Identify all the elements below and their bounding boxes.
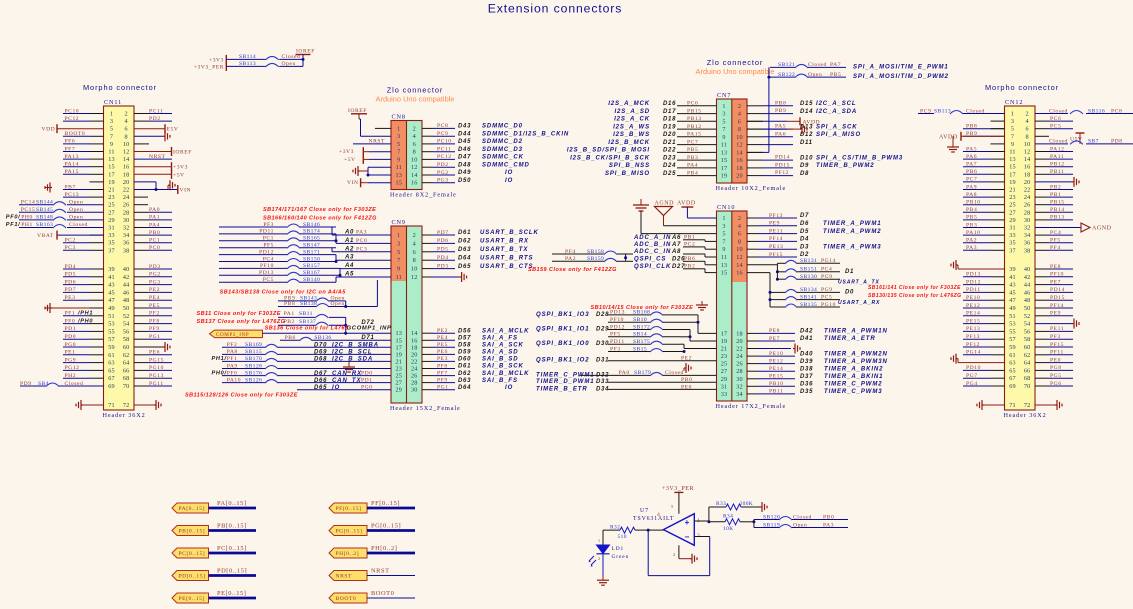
svg-text:+3V3_PER: +3V3_PER — [662, 486, 694, 492]
svg-text:15: 15 — [396, 337, 403, 344]
svg-text:PC12: PC12 — [437, 154, 452, 160]
svg-text:PF12: PF12 — [775, 170, 789, 176]
svg-text:PF2: PF2 — [227, 342, 238, 348]
svg-text:D16: D16 — [663, 101, 676, 107]
svg-text:+3V3: +3V3 — [339, 149, 354, 155]
svg-text:QSPI_BK1_IO2: QSPI_BK1_IO2 — [536, 358, 590, 364]
svg-text:39: 39 — [1009, 266, 1016, 273]
svg-text:2: 2 — [738, 215, 741, 222]
svg-text:64: 64 — [123, 360, 130, 367]
svg-text:5: 5 — [397, 249, 400, 256]
svg-text:PA8: PA8 — [966, 192, 977, 198]
svg-text:2: 2 — [413, 232, 416, 239]
svg-text:PC5: PC5 — [263, 277, 274, 283]
svg-text:3: 3 — [110, 118, 113, 125]
svg-text:Arduino Uno compatible: Arduino Uno compatible — [376, 95, 455, 104]
svg-text:PC4: PC4 — [821, 267, 832, 273]
svg-text:PB12: PB12 — [687, 124, 702, 130]
svg-text:PF10: PF10 — [1050, 272, 1064, 278]
svg-text:PE[0..15]: PE[0..15] — [217, 590, 246, 597]
svg-text:19: 19 — [108, 179, 115, 186]
svg-text:Zlo connector: Zlo connector — [707, 58, 763, 67]
svg-text:ADC_C_IN: ADC_C_IN — [633, 249, 671, 255]
svg-text:66: 66 — [123, 367, 130, 374]
svg-text:PB12: PB12 — [1050, 162, 1065, 168]
svg-text:Closed: Closed — [69, 222, 88, 228]
svg-text:PD11: PD11 — [966, 287, 981, 293]
svg-text:USART_A_RX: USART_A_RX — [838, 300, 880, 306]
svg-text:46: 46 — [1024, 289, 1031, 296]
svg-text:Open: Open — [69, 207, 83, 213]
svg-text:PF[0..15]: PF[0..15] — [336, 506, 362, 512]
svg-text:19: 19 — [721, 338, 728, 345]
svg-text:37: 37 — [1009, 247, 1016, 254]
svg-text:PB8: PB8 — [775, 100, 786, 106]
svg-text:70: 70 — [1024, 383, 1031, 390]
svg-text:14: 14 — [123, 156, 130, 163]
svg-text:14: 14 — [736, 149, 743, 156]
svg-text:PE2: PE2 — [437, 328, 448, 334]
svg-text:SDMMC_CK: SDMMC_CK — [482, 155, 524, 161]
svg-text:17: 17 — [108, 171, 115, 178]
svg-text:D33: D33 — [596, 379, 609, 385]
svg-text:D30: D30 — [596, 341, 609, 347]
svg-text:PC4: PC4 — [263, 256, 274, 262]
svg-text:72: 72 — [1024, 402, 1031, 409]
svg-text:17: 17 — [1009, 171, 1016, 178]
svg-text:29: 29 — [396, 387, 403, 394]
svg-text:2: 2 — [125, 111, 128, 118]
svg-text:I2C_A_SDA: I2C_A_SDA — [816, 109, 857, 115]
svg-text:PG5: PG5 — [1050, 373, 1062, 379]
svg-text:PE8: PE8 — [1050, 264, 1061, 270]
svg-text:PG9: PG9 — [821, 274, 833, 280]
svg-text:Header 36X2: Header 36X2 — [103, 412, 146, 419]
svg-text:SB115: SB115 — [245, 349, 262, 355]
svg-text:55: 55 — [108, 328, 115, 335]
svg-text:10: 10 — [736, 246, 743, 253]
svg-text:PE11: PE11 — [769, 228, 783, 234]
svg-text:38: 38 — [123, 247, 130, 254]
svg-text:CN9: CN9 — [392, 219, 406, 226]
svg-text:D11: D11 — [800, 140, 813, 146]
svg-text:D15: D15 — [800, 101, 813, 107]
svg-text:SB166/160/140 Close only for F: SB166/160/140 Close only for F412ZG — [263, 216, 377, 222]
svg-text:PD13: PD13 — [966, 272, 981, 278]
svg-text:PC3: PC3 — [65, 245, 76, 251]
svg-text:54: 54 — [123, 321, 130, 328]
svg-text:SB144: SB144 — [36, 199, 53, 205]
svg-text:9: 9 — [397, 266, 400, 273]
svg-text:PE6: PE6 — [437, 349, 448, 355]
svg-text:D21: D21 — [663, 140, 676, 146]
svg-text:71: 71 — [1009, 402, 1016, 409]
svg-text:9: 9 — [110, 141, 113, 148]
svg-text:PH1/: PH1/ — [212, 356, 228, 362]
svg-text:57: 57 — [1009, 336, 1016, 343]
svg-text:PF8: PF8 — [437, 363, 448, 369]
svg-text:PD[0..15]: PD[0..15] — [217, 568, 247, 575]
svg-text:28: 28 — [123, 209, 130, 216]
svg-text:SB136: SB136 — [314, 335, 331, 341]
svg-text:TIMER_A_BKIN2: TIMER_A_BKIN2 — [824, 366, 883, 372]
svg-text:PB6: PB6 — [966, 169, 977, 175]
svg-text:50: 50 — [123, 305, 130, 312]
svg-text:SB130: SB130 — [800, 274, 817, 280]
svg-text:PC3: PC3 — [356, 246, 367, 252]
svg-text:A0: A0 — [344, 230, 354, 236]
svg-text:SPI_A_MISO: SPI_A_MISO — [816, 132, 861, 138]
svg-text:Arduino Uno compatible: Arduino Uno compatible — [696, 67, 775, 76]
svg-text:27: 27 — [1009, 209, 1016, 216]
svg-text:IO: IO — [505, 170, 513, 176]
svg-text:PG6: PG6 — [1050, 381, 1062, 387]
svg-text:PE13: PE13 — [769, 244, 783, 250]
svg-text:PE7: PE7 — [1050, 279, 1061, 285]
svg-text:PE3: PE3 — [437, 356, 448, 362]
svg-text:PA5: PA5 — [966, 146, 977, 152]
svg-text:PF7: PF7 — [437, 370, 448, 376]
svg-text:40: 40 — [123, 266, 130, 273]
svg-text:SB115/128/126 Close only for F: SB115/128/126 Close only for F303ZE — [185, 393, 298, 399]
svg-text:4: 4 — [125, 118, 128, 125]
svg-text:SB121: SB121 — [778, 62, 795, 68]
svg-text:Morpho connector: Morpho connector — [985, 83, 1059, 92]
svg-text:CN10: CN10 — [717, 204, 735, 211]
svg-text:PB10: PB10 — [966, 200, 981, 206]
svg-text:Closed: Closed — [1049, 139, 1068, 145]
svg-text:30: 30 — [736, 376, 743, 383]
svg-text:53: 53 — [108, 321, 115, 328]
svg-text:Header 15X2_Female: Header 15X2_Female — [390, 405, 461, 412]
svg-text:PF5: PF5 — [1050, 238, 1061, 244]
svg-text:/PH1: /PH1 — [77, 311, 93, 317]
svg-text:D39: D39 — [800, 359, 813, 365]
svg-text:SAI_B_SD: SAI_B_SD — [482, 357, 519, 363]
svg-text:A3: A3 — [344, 255, 354, 261]
svg-text:59: 59 — [108, 344, 115, 351]
svg-text:PE12: PE12 — [966, 303, 980, 309]
svg-text:PD14: PD14 — [1050, 287, 1065, 293]
svg-text:SB169: SB169 — [245, 342, 262, 348]
svg-text:12: 12 — [411, 274, 418, 281]
svg-text:PD12: PD12 — [259, 249, 274, 255]
svg-text:34: 34 — [123, 232, 130, 239]
svg-text:+3V3: +3V3 — [209, 57, 224, 63]
svg-text:PC1: PC1 — [263, 236, 274, 242]
svg-text:Header 17X2_Female: Header 17X2_Female — [716, 403, 787, 410]
svg-text:SB159 Close only for F412ZG: SB159 Close only for F412ZG — [528, 267, 617, 273]
svg-text:Header 36X2: Header 36X2 — [1004, 412, 1047, 419]
svg-text:PG15: PG15 — [149, 357, 164, 363]
svg-text:PB4: PB4 — [966, 207, 977, 213]
svg-text:Open: Open — [793, 522, 807, 528]
svg-text:SB163: SB163 — [36, 222, 53, 228]
svg-text:8: 8 — [413, 257, 416, 264]
svg-text:D28: D28 — [596, 312, 609, 318]
svg-text:7: 7 — [397, 257, 400, 264]
svg-text:R33: R33 — [716, 501, 726, 507]
svg-text:20: 20 — [123, 179, 130, 186]
svg-text:PB8: PB8 — [966, 124, 977, 130]
svg-text:25: 25 — [396, 373, 403, 380]
svg-text:23: 23 — [1009, 194, 1016, 201]
svg-text:29: 29 — [108, 217, 115, 224]
svg-text:SPI_A_CS/TIM_B_PWM3: SPI_A_CS/TIM_B_PWM3 — [816, 155, 903, 161]
svg-text:12: 12 — [736, 142, 743, 149]
svg-text:4: 4 — [1026, 118, 1029, 125]
svg-text:+3V3: +3V3 — [173, 165, 188, 171]
svg-text:D50: D50 — [458, 178, 471, 184]
svg-text:PE9: PE9 — [769, 221, 780, 227]
svg-text:PC11: PC11 — [149, 108, 163, 114]
svg-text:PB0: PB0 — [681, 377, 692, 383]
svg-text:42: 42 — [1024, 274, 1031, 281]
svg-text:D65: D65 — [458, 264, 471, 270]
svg-text:Open: Open — [808, 72, 822, 78]
svg-text:D62: D62 — [458, 371, 471, 377]
svg-text:28: 28 — [411, 380, 418, 387]
svg-text:6: 6 — [413, 141, 416, 148]
svg-text:PD2: PD2 — [437, 162, 449, 168]
svg-text:D58: D58 — [458, 343, 471, 349]
svg-text:PD13: PD13 — [259, 270, 274, 276]
svg-text:PG10: PG10 — [821, 302, 836, 308]
svg-text:I2C_A_SCL: I2C_A_SCL — [816, 101, 856, 107]
svg-text:QSPI_BK1_IO3: QSPI_BK1_IO3 — [536, 312, 590, 318]
svg-text:9: 9 — [397, 156, 400, 163]
svg-text:D61: D61 — [458, 230, 471, 236]
svg-text:510: 510 — [618, 534, 627, 540]
svg-text:SB143/SB138 Close only for I2C: SB143/SB138 Close only for I2C on A4/A5 — [220, 290, 347, 296]
svg-text:I2C_B_SDA: I2C_B_SDA — [332, 357, 373, 363]
svg-text:SAI_B_FS: SAI_B_FS — [482, 378, 518, 384]
svg-text:PD4: PD4 — [65, 264, 77, 270]
svg-text:TIMER_A_PWM1: TIMER_A_PWM1 — [823, 221, 881, 227]
svg-text:68: 68 — [123, 375, 130, 382]
svg-text:I2S_A_SD: I2S_A_SD — [614, 109, 650, 115]
svg-text:PD11: PD11 — [259, 229, 274, 235]
svg-text:Zlo connector: Zlo connector — [387, 86, 443, 95]
svg-text:PG11: PG11 — [149, 381, 164, 387]
svg-text:18: 18 — [1024, 171, 1031, 178]
svg-text:SAI_A_FS: SAI_A_FS — [482, 336, 518, 342]
svg-text:COMP2_INP: COMP2_INP — [216, 332, 249, 338]
svg-text:27: 27 — [396, 380, 403, 387]
svg-text:31: 31 — [108, 225, 115, 232]
svg-text:PA7: PA7 — [966, 162, 977, 168]
svg-text:60: 60 — [123, 344, 130, 351]
svg-text:66: 66 — [1024, 367, 1031, 374]
svg-text:72: 72 — [123, 402, 130, 409]
svg-text:D44: D44 — [458, 131, 471, 137]
svg-text:29: 29 — [721, 376, 728, 383]
svg-text:SB11: SB11 — [299, 311, 313, 317]
svg-text:17: 17 — [396, 344, 403, 351]
svg-text:12: 12 — [123, 149, 130, 156]
svg-text:PG2: PG2 — [149, 272, 161, 278]
svg-text:67: 67 — [1009, 375, 1016, 382]
svg-text:PB2: PB2 — [284, 319, 295, 325]
svg-text:PG[0..15]: PG[0..15] — [336, 529, 363, 535]
svg-text:6: 6 — [125, 126, 128, 133]
svg-text:PD1: PD1 — [65, 326, 77, 332]
svg-text:SB141: SB141 — [800, 294, 817, 300]
svg-text:SAI_B_SCK: SAI_B_SCK — [482, 364, 524, 370]
svg-text:PF7: PF7 — [65, 146, 76, 152]
svg-text:Header 8X2_Female: Header 8X2_Female — [390, 192, 457, 199]
svg-text:20: 20 — [736, 338, 743, 345]
svg-text:SB130/135 Close only for L476Z: SB130/135 Close only for L476ZG — [868, 293, 961, 299]
svg-text:TIMER_B_ETR: TIMER_B_ETR — [536, 386, 588, 392]
svg-text:D35: D35 — [800, 389, 813, 395]
svg-text:IOREF: IOREF — [348, 108, 367, 114]
svg-text:3: 3 — [397, 240, 400, 247]
svg-text:PA6: PA6 — [775, 131, 786, 137]
svg-text:TIMER_A_PWM2N: TIMER_A_PWM2N — [824, 351, 888, 357]
svg-text:61: 61 — [108, 352, 115, 359]
svg-text:CAN_RX: CAN_RX — [332, 371, 362, 377]
svg-text:NRST: NRST — [149, 154, 166, 160]
svg-text:PA15: PA15 — [687, 132, 701, 138]
svg-text:41: 41 — [108, 274, 115, 281]
svg-text:CAN_TX: CAN_TX — [332, 378, 362, 384]
svg-text:PC15: PC15 — [21, 207, 36, 213]
svg-text:21: 21 — [1009, 187, 1016, 194]
svg-text:PF12: PF12 — [966, 342, 980, 348]
svg-text:U7: U7 — [640, 508, 649, 514]
svg-text:18: 18 — [411, 344, 418, 351]
svg-text:PA4: PA4 — [687, 163, 698, 169]
svg-text:35: 35 — [108, 240, 115, 247]
svg-text:D46: D46 — [458, 147, 471, 153]
svg-text:D4: D4 — [800, 237, 809, 243]
svg-text:23: 23 — [721, 353, 728, 360]
svg-text:TIMER_A_PWM2: TIMER_A_PWM2 — [823, 229, 881, 235]
svg-text:14: 14 — [1024, 156, 1031, 163]
svg-text:11: 11 — [396, 164, 402, 171]
svg-text:D65: D65 — [314, 385, 327, 391]
svg-text:7: 7 — [722, 126, 725, 133]
svg-text:GCOMP1_INP: GCOMP1_INP — [347, 326, 392, 332]
svg-text:24: 24 — [123, 194, 130, 201]
svg-text:D0: D0 — [845, 289, 854, 295]
svg-text:Closed: Closed — [1049, 108, 1068, 114]
svg-text:PD15: PD15 — [775, 163, 790, 169]
svg-text:PC[0..15]: PC[0..15] — [179, 551, 206, 557]
svg-text:VBAT: VBAT — [37, 233, 54, 239]
svg-text:PA3: PA3 — [356, 230, 367, 236]
svg-text:I2S_B_SD/SPI_B_MOSI: I2S_B_SD/SPI_B_MOSI — [567, 148, 650, 154]
svg-text:12: 12 — [1024, 149, 1031, 156]
svg-text:16: 16 — [736, 270, 743, 277]
svg-text:D70: D70 — [314, 343, 327, 349]
svg-text:BOOT0: BOOT0 — [371, 590, 394, 597]
svg-text:SB119: SB119 — [763, 522, 780, 528]
svg-text:SB135: SB135 — [800, 302, 817, 308]
svg-text:SB126: SB126 — [245, 377, 262, 383]
svg-text:PD0: PD0 — [65, 334, 77, 340]
svg-text:PD4: PD4 — [437, 255, 449, 261]
svg-text:5: 5 — [1011, 126, 1014, 133]
svg-text:PF14: PF14 — [769, 236, 783, 242]
svg-text:PA14: PA14 — [65, 162, 79, 168]
svg-text:4: 4 — [413, 133, 416, 140]
svg-text:R34: R34 — [723, 514, 733, 520]
svg-text:PG14: PG14 — [966, 350, 981, 356]
svg-text:10: 10 — [411, 156, 418, 163]
svg-text:U5V: U5V — [1070, 137, 1083, 143]
svg-text:D60: D60 — [458, 357, 471, 363]
svg-text:USART_B_RTS: USART_B_RTS — [480, 255, 533, 261]
svg-text:TIMER_C_PWM2: TIMER_C_PWM2 — [824, 382, 882, 388]
svg-text:SB113: SB113 — [934, 108, 951, 114]
svg-text:PF2: PF2 — [149, 311, 160, 317]
svg-text:5: 5 — [722, 118, 725, 125]
svg-text:D61: D61 — [458, 364, 471, 370]
svg-text:11: 11 — [108, 149, 114, 156]
svg-text:TSV631AILT: TSV631AILT — [633, 516, 674, 522]
svg-text:VDD: VDD — [42, 127, 56, 133]
svg-text:3: 3 — [1011, 118, 1014, 125]
svg-text:9: 9 — [722, 246, 725, 253]
svg-text:PC7: PC7 — [687, 139, 698, 145]
svg-text:TIMER_A_PWM1N: TIMER_A_PWM1N — [824, 329, 888, 335]
svg-text:USART_B_CTS: USART_B_CTS — [480, 264, 533, 270]
svg-text:D59: D59 — [458, 350, 471, 356]
svg-text:AVDD: AVDD — [803, 120, 821, 126]
svg-text:9: 9 — [722, 134, 725, 141]
svg-text:D37: D37 — [800, 374, 813, 380]
svg-text:55: 55 — [1009, 328, 1016, 335]
svg-text:PG3: PG3 — [437, 178, 449, 184]
svg-text:34: 34 — [1024, 232, 1031, 239]
svg-text:D40: D40 — [800, 351, 813, 357]
svg-text:TIMER_A_PWM3N: TIMER_A_PWM3N — [824, 359, 888, 365]
svg-text:PG13: PG13 — [149, 373, 164, 379]
svg-text:PB0: PB0 — [823, 514, 834, 520]
svg-text:PH0: PH0 — [21, 215, 33, 221]
svg-text:A4: A4 — [344, 263, 354, 269]
svg-text:8: 8 — [125, 133, 128, 140]
svg-text:24: 24 — [736, 353, 743, 360]
svg-text:3: 3 — [397, 133, 400, 140]
svg-text:3: 3 — [722, 223, 725, 230]
svg-text:PA2: PA2 — [565, 256, 576, 262]
svg-text:AGND: AGND — [655, 201, 675, 207]
svg-text:PG12: PG12 — [65, 365, 80, 371]
svg-text:PD5: PD5 — [437, 247, 449, 253]
svg-text:PD6: PD6 — [65, 279, 77, 285]
svg-text:ADC_A_IN: ADC_A_IN — [633, 235, 671, 241]
svg-text:6: 6 — [738, 231, 741, 238]
svg-text:PF10: PF10 — [260, 263, 274, 269]
svg-text:56: 56 — [1024, 328, 1031, 335]
svg-text:33: 33 — [721, 391, 728, 398]
svg-text:PE3: PE3 — [65, 295, 76, 301]
svg-text:PD3: PD3 — [149, 264, 161, 270]
svg-text:47: 47 — [108, 297, 115, 304]
svg-text:PF1: PF1 — [227, 356, 238, 362]
svg-text:10: 10 — [736, 134, 743, 141]
svg-text:1: 1 — [397, 125, 400, 132]
svg-text:36: 36 — [123, 240, 130, 247]
svg-text:11: 11 — [721, 254, 727, 261]
svg-text:SPI_A_SCK: SPI_A_SCK — [816, 124, 857, 130]
svg-text:54: 54 — [1024, 321, 1031, 328]
svg-text:D8: D8 — [800, 171, 809, 177]
svg-text:16: 16 — [736, 157, 743, 164]
